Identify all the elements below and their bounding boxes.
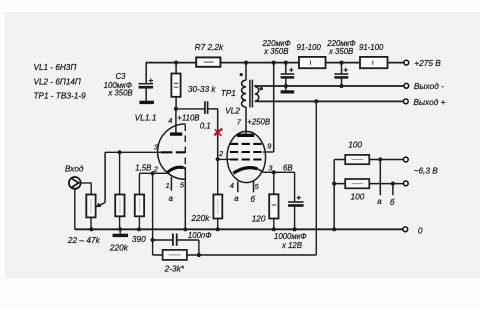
node heater bus b <box>391 182 395 186</box>
resistor 120 cathode VL2 <box>252 172 279 229</box>
node junction cap C4 top <box>284 61 288 65</box>
wire heater bus a stub <box>379 160 381 196</box>
svg-text:100: 100 <box>351 192 365 202</box>
svg-text:~6,3 В: ~6,3 В <box>414 166 439 176</box>
node cap C5 bottom on out- <box>339 84 343 88</box>
svg-text:220k: 220k <box>190 213 210 223</box>
wire input shield down <box>74 189 76 230</box>
label C5 value <box>326 39 355 56</box>
transformer TP1 primary winding <box>242 80 246 107</box>
tube VL2 envelope <box>227 131 266 182</box>
cathode VL2 <box>233 168 263 174</box>
resistor 220k grid leak VL1 <box>109 152 129 252</box>
svg-text:30-33 k: 30-33 k <box>188 84 217 94</box>
svg-text:120: 120 <box>252 213 266 223</box>
node feedback right <box>197 253 201 257</box>
node 120 bottom <box>272 227 276 231</box>
label C4 value <box>261 39 290 56</box>
node 220k bottom <box>118 227 122 231</box>
svg-text:1000мкФ: 1000мкФ <box>274 232 307 241</box>
capacitor C5 220uF <box>334 63 348 86</box>
svg-text:2-3k*: 2-3k* <box>164 264 185 274</box>
anode VL2 <box>237 134 254 137</box>
node junction cap C5 top <box>339 61 343 65</box>
transformer TP1 primary lead <box>245 63 247 134</box>
svg-text:б: б <box>251 195 256 204</box>
resistor 2-3k feedback <box>153 240 199 274</box>
wire screen grid exit <box>263 151 274 153</box>
node junction 30-33k top <box>174 61 178 65</box>
svg-text:+110В: +110В <box>177 114 199 123</box>
transformer core <box>250 80 253 108</box>
node grid VL2 junction <box>216 157 220 161</box>
terminal 6,3V a <box>403 157 408 162</box>
wire heater top right <box>369 159 403 161</box>
capacitor 100pF feedback <box>153 231 212 246</box>
svg-text:2: 2 <box>153 164 158 173</box>
terminal 6,3V b <box>403 181 408 186</box>
node junction primary top <box>244 61 248 65</box>
svg-text:а: а <box>377 197 382 206</box>
capacitor C4 220uF <box>281 63 295 91</box>
svg-text:С3: С3 <box>116 72 127 81</box>
wire input to pot <box>81 183 92 195</box>
pin 5 VL1 wire down <box>180 167 185 229</box>
svg-text:Выход +: Выход + <box>413 97 445 107</box>
svg-text:4: 4 <box>230 181 234 190</box>
capacitor 0,1 coupling <box>200 101 211 130</box>
node heater left join <box>332 182 336 186</box>
svg-text:Вход: Вход <box>65 163 84 173</box>
svg-text:б: б <box>390 198 395 207</box>
grid VL1.1 wire <box>105 151 161 153</box>
node heater bus a <box>378 157 382 161</box>
node cathode 120 tap <box>272 170 276 174</box>
svg-text:6В: 6В <box>283 164 293 173</box>
node grid VL1 junction <box>118 150 122 154</box>
pin 1 VL1 heater stub <box>166 177 172 191</box>
svg-text:х 350В: х 350В <box>328 47 353 56</box>
resistor 30-33k <box>171 63 216 109</box>
label 1000uF value <box>274 232 307 250</box>
ground bar under C3 <box>139 101 154 104</box>
svg-text:ТР1 - ТВЗ-1-9: ТР1 - ТВЗ-1-9 <box>34 92 87 101</box>
red X mark <box>214 129 222 136</box>
wire heater bus b stub <box>392 184 394 196</box>
svg-text:+275 В: +275 В <box>414 58 441 68</box>
svg-text:х 350В: х 350В <box>263 47 288 56</box>
wire output minus line <box>255 85 404 87</box>
node pot bottom <box>89 227 93 231</box>
pin 4 VL2 heater stub <box>230 181 238 192</box>
wire screen grid feed vertical <box>273 63 275 152</box>
node heater ground <box>332 227 336 231</box>
svg-text:1: 1 <box>166 181 170 190</box>
wire output plus line <box>255 100 403 102</box>
wire grid VL2 entry <box>218 158 230 160</box>
svg-text:х 12В: х 12В <box>281 241 302 250</box>
svg-text:VL1 - 6Н3П: VL1 - 6Н3П <box>34 63 77 72</box>
svg-text:ТР1: ТР1 <box>221 88 236 98</box>
wire feedback to output plus <box>199 101 316 255</box>
svg-text:220k: 220k <box>109 243 129 253</box>
node 390 bottom <box>137 227 141 231</box>
svg-text:х 350В: х 350В <box>107 89 132 98</box>
resistor 220k grid leak VL2 <box>190 159 222 229</box>
transformer TP1 secondary winding <box>255 87 259 102</box>
svg-text:9: 9 <box>267 142 271 151</box>
resistor 91-100 first <box>297 43 326 68</box>
capacitor 1000uF cathode <box>288 196 304 230</box>
svg-text:0: 0 <box>418 225 423 235</box>
tube VL1.1 envelope half <box>158 124 186 179</box>
node cap C4 bottom on out- <box>284 84 288 88</box>
terminal out plus <box>403 99 408 104</box>
wire cathode VL2 right <box>264 172 295 201</box>
wire ground rail <box>75 228 403 230</box>
resistor 100 heater top <box>345 140 369 165</box>
pin 5 VL2 heater stub <box>254 181 260 192</box>
terminal +275V <box>404 60 409 65</box>
wire B+ rail top <box>146 62 404 64</box>
input connector XS1 <box>69 177 81 189</box>
svg-text:1,5В: 1,5В <box>135 163 151 172</box>
svg-text:22 – 47k: 22 – 47k <box>67 235 101 245</box>
svg-text:2: 2 <box>218 149 223 158</box>
node pin5 to ground rail <box>183 227 187 231</box>
svg-text:91-100: 91-100 <box>359 43 384 52</box>
wire feedback vertical from cathode <box>152 173 154 255</box>
wire heater network left <box>334 160 345 230</box>
capacitor C3 electrolytic <box>139 63 154 101</box>
wire heater bottom right <box>369 183 403 185</box>
anode VL1.1 <box>170 109 182 134</box>
ground bar under 220k <box>113 229 129 235</box>
terminal out minus <box>404 83 409 88</box>
grid VL1.1 dashes <box>161 151 186 153</box>
terminal 0 <box>403 227 408 232</box>
svg-text:91-100: 91-100 <box>297 43 322 52</box>
tube VL1.1 envelope dashed side <box>184 125 186 167</box>
svg-text:+250В: +250В <box>247 118 270 127</box>
wire anode to coupling cap <box>176 108 205 110</box>
transformer polarity dot secondary <box>260 87 263 90</box>
svg-text:0,1: 0,1 <box>200 121 211 130</box>
svg-text:100пФ: 100пФ <box>188 231 212 240</box>
transformer polarity dot primary <box>240 73 243 76</box>
grid rows VL2 <box>230 144 263 160</box>
potentiometer 22-47k <box>67 195 101 245</box>
resistor 100 heater bottom <box>345 179 369 202</box>
node 1000uF bottom <box>293 227 297 231</box>
node feedback cap tap <box>151 238 155 242</box>
ground bar under C4 <box>281 90 295 93</box>
node feedback tap on out+ <box>314 99 318 103</box>
svg-text:4: 4 <box>168 116 172 125</box>
svg-text:а: а <box>169 194 174 203</box>
svg-text:390: 390 <box>132 234 146 244</box>
node anode VL1.1 junction <box>174 107 178 111</box>
pot wiper arrow <box>96 152 105 207</box>
resistor R7 <box>195 42 224 67</box>
svg-text:R7 2,2k: R7 2,2k <box>195 42 224 52</box>
svg-text:100: 100 <box>348 140 362 150</box>
node 220k VL2 bottom <box>216 227 220 231</box>
svg-text:VL2: VL2 <box>225 106 240 116</box>
svg-text:Выход -: Выход - <box>414 81 444 91</box>
svg-text:а: а <box>234 194 239 203</box>
node junction screen feed <box>272 61 276 65</box>
wire coupling cap to VL2 grid <box>208 109 218 159</box>
svg-text:VL1.1: VL1.1 <box>135 113 157 123</box>
svg-text:VL2 - 6П14П: VL2 - 6П14П <box>34 77 81 86</box>
resistor 390 cathode bias <box>132 173 153 244</box>
cathode VL1.1 <box>167 167 185 173</box>
label C3 value <box>104 72 133 97</box>
wire cathode VL1.1 to node <box>153 172 167 174</box>
resistor 91-100 second <box>359 43 388 68</box>
node cathode VL1 junction <box>151 171 155 175</box>
